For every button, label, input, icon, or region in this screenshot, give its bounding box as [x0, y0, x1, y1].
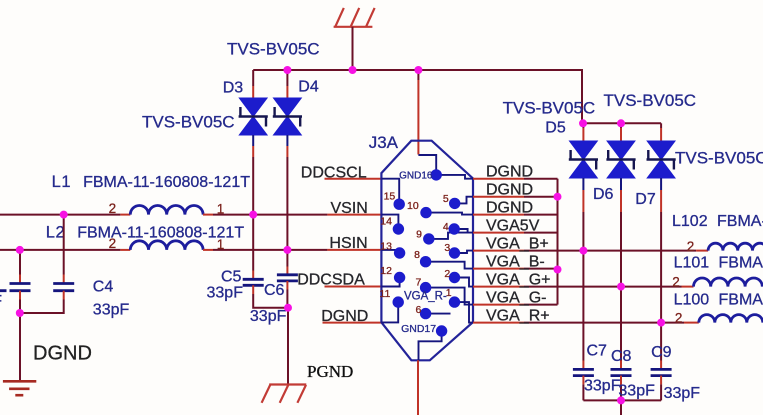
junction node 6 [60, 211, 68, 219]
wire D5 riser [582, 123, 584, 128]
hook p1 [455, 302, 474, 323]
wire C5 bottom [253, 294, 288, 308]
pin C5 top [252, 271, 254, 280]
junction node 10 [16, 309, 24, 317]
svg-text:VGA_G+: VGA_G+ [486, 272, 550, 289]
lead D5 bottom [582, 178, 584, 190]
capacitor C4 [53, 284, 74, 291]
pin circle 5 [449, 198, 460, 209]
svg-text:FBMA-11-160808-121T: FBMA-11-160808-121T [719, 255, 763, 272]
svg-text:TVS-BV05C: TVS-BV05C [142, 113, 235, 132]
hook p6 stub VGA_R- [426, 313, 451, 315]
junction node 5 [617, 119, 625, 127]
diode D6 TVS-BV05C [606, 141, 635, 178]
pin J3A right row DGND [473, 178, 524, 180]
pin circle 11 [393, 296, 404, 307]
svg-text:DDCSDA: DDCSDA [297, 272, 365, 289]
inductor L102 coil [708, 243, 763, 250]
connector J3A outline [381, 141, 473, 361]
pin GND17 exit lower [417, 360, 419, 415]
capacitor C3 (edge) [10, 284, 31, 291]
svg-text:DGND: DGND [486, 200, 533, 217]
svg-text:VGA5V: VGA5V [486, 218, 540, 235]
svg-text:2: 2 [675, 310, 683, 325]
pin J3A right row VGA_G- [473, 304, 524, 306]
junction node 9 [283, 246, 291, 254]
wire D4 riser [286, 70, 288, 86]
svg-text:9: 9 [416, 229, 422, 241]
wire DGND row [524, 196, 558, 198]
svg-text:1: 1 [217, 237, 225, 252]
hook p5 [455, 197, 473, 204]
svg-text:GND16: GND16 [399, 170, 433, 181]
svg-text:TVS-BV05C: TVS-BV05C [675, 149, 763, 168]
junction node 2 [349, 66, 357, 74]
hook GND16 to DGND row [436, 175, 473, 179]
wire D3 riser [252, 70, 254, 86]
pin circle 10 [420, 207, 431, 218]
pin connector GND16 entry [417, 80, 419, 155]
wire D3 node to C5 [252, 215, 254, 271]
pin L1 pin2 [120, 214, 130, 216]
wire VSIN row mid [213, 214, 327, 216]
svg-text:GND17: GND17 [401, 323, 436, 335]
pin C6 bottom [286, 281, 288, 290]
junction node 8 [16, 246, 24, 254]
wire D7 down [660, 212, 662, 323]
svg-text:L101: L101 [674, 255, 710, 272]
wire bottom exit [620, 400, 622, 415]
pin C7 top [582, 361, 584, 370]
svg-text:DGND: DGND [486, 182, 533, 199]
pin circle GND16 [431, 169, 442, 180]
svg-text:6: 6 [416, 304, 422, 316]
wire C8 lower [620, 384, 622, 400]
hook p7 [426, 288, 473, 305]
pin L101 pin2 [682, 286, 694, 288]
inductor L100 coil [699, 315, 763, 323]
hook p15 [381, 179, 399, 205]
svg-text:C7: C7 [587, 343, 608, 360]
pin J3A right row VGA_B- [473, 268, 524, 270]
pin J3A p14 stub [327, 214, 381, 216]
junction node 12 [554, 193, 562, 201]
pin C9 top [660, 361, 662, 370]
svg-text:DGND: DGND [33, 343, 92, 365]
svg-text:11: 11 [379, 288, 390, 300]
svg-text:VGA_G-: VGA_G- [486, 290, 546, 307]
wire C8 upper [620, 287, 622, 361]
pin circle 7 [420, 282, 431, 293]
svg-text:C4: C4 [93, 278, 114, 295]
wire chassis to top bus [352, 27, 354, 70]
hook GND17 exit [419, 331, 442, 360]
hook GND16 entry [418, 155, 436, 175]
wire C3 bottom to ground [19, 300, 21, 381]
wire C6 bottom [286, 290, 288, 308]
wire HSIN row mid [213, 249, 327, 251]
svg-text:DGND: DGND [486, 164, 533, 181]
pin J3A right row VGA_R+ [473, 322, 524, 324]
svg-text:VGA_R+: VGA_R+ [486, 308, 550, 325]
junction node 16 [657, 319, 665, 327]
pin L100 pin2 [684, 322, 699, 324]
wire D6 down [620, 212, 622, 287]
hook p9 [429, 233, 473, 239]
pin D5 bottom [582, 190, 584, 212]
svg-text:1: 1 [217, 201, 225, 216]
lead D3 bottom [252, 135, 254, 146]
wire VSIN to C4 [63, 215, 65, 275]
junction node 7 [249, 211, 257, 219]
pin C8 bottom [620, 376, 622, 385]
svg-text:14: 14 [380, 216, 392, 228]
svg-text:D5: D5 [545, 120, 566, 137]
svg-text:33pF: 33pF [618, 383, 655, 400]
svg-text:2: 2 [109, 236, 117, 251]
hook p3 [455, 251, 474, 253]
capacitor C7 [573, 369, 594, 375]
inductor L101 coil [694, 278, 763, 287]
diode D3 TVS-BV05C [239, 98, 268, 135]
svg-text:2: 2 [109, 201, 117, 216]
diode D7 TVS-BV05C [647, 141, 676, 178]
svg-text:TVS-BV05C: TVS-BV05C [227, 40, 320, 59]
svg-text:2: 2 [672, 275, 680, 290]
wire C9 lower [660, 384, 662, 400]
pin J3A p11 stub DGND [323, 322, 382, 324]
wire VGA_G- row [524, 304, 558, 306]
wire C7 lower [582, 384, 584, 400]
pin C5 bottom [252, 285, 254, 294]
wire DGND row [524, 178, 558, 180]
pin J3A p12 stub DDCSDA [325, 286, 382, 288]
svg-text:HSIN: HSIN [329, 235, 367, 252]
svg-text:D3: D3 [223, 80, 244, 97]
pin D7 top [660, 128, 662, 141]
svg-text:VGA_B-: VGA_B- [486, 254, 545, 271]
hook p2 [455, 278, 474, 287]
svg-text:10: 10 [407, 200, 419, 212]
wire D7 riser [660, 123, 662, 128]
svg-text:33pF: 33pF [584, 378, 621, 395]
hook p11 [381, 302, 398, 322]
wire VGA_B+ row [524, 250, 696, 252]
pin C9 bottom [660, 376, 662, 385]
pin J3A right row DGND [473, 214, 524, 216]
wire to PGND [287, 308, 289, 385]
svg-text:PGND: PGND [307, 362, 353, 381]
pin C6 top [286, 267, 288, 275]
svg-text:12: 12 [380, 265, 392, 277]
pin C4 bottom [63, 291, 65, 300]
hook p12 [381, 278, 399, 287]
svg-text:L102: L102 [672, 213, 708, 230]
pin circle 8 [420, 256, 431, 267]
lead D4 bottom [286, 135, 288, 146]
svg-text:15: 15 [384, 191, 396, 203]
junction node 17 [617, 396, 625, 404]
junction node 11 [284, 304, 292, 312]
wire C7 upper [582, 251, 584, 361]
pin C4 top [63, 275, 65, 284]
diode D5 TVS-BV05C [569, 141, 598, 178]
pin circle 4 [449, 223, 460, 234]
pin D7 bottom [660, 190, 662, 212]
junction node 13 [554, 266, 562, 274]
hook p14 [381, 215, 398, 229]
svg-text:J3A: J3A [369, 133, 399, 152]
wire connector GND16 entry upper [417, 70, 419, 80]
pin circle 6 [420, 308, 431, 319]
pin J3A p13 stub [327, 249, 381, 251]
ground DGND symbol [3, 381, 36, 395]
wire D5 down [582, 212, 584, 251]
svg-text:13: 13 [380, 241, 392, 253]
wire VGA5V row [524, 232, 558, 234]
svg-text:L2: L2 [46, 223, 66, 241]
pin D4 bottom [286, 146, 288, 157]
wire HSIN row left [0, 249, 120, 251]
svg-text:1: 1 [446, 287, 452, 299]
inductor L1 coil [130, 206, 203, 215]
pin D4 top [286, 86, 288, 99]
pin circle 12 [394, 272, 405, 283]
hook p8 [426, 262, 473, 269]
pin C8 top [620, 361, 622, 370]
pin J3A right row DGND [473, 196, 524, 198]
capacitor C5 [243, 279, 264, 285]
svg-text:L1: L1 [52, 173, 72, 191]
svg-text:2: 2 [687, 239, 695, 254]
capacitor C8 [611, 369, 632, 375]
svg-text:4: 4 [443, 221, 449, 233]
pin circle GND17 [436, 325, 447, 336]
svg-text:D7: D7 [635, 191, 656, 208]
junction node 4 [579, 119, 587, 127]
wire DGND row [524, 214, 558, 216]
wire DGND vertical bus [557, 179, 559, 305]
junction node 14 [579, 247, 587, 255]
lead D6 bottom [620, 178, 622, 190]
wire D4 node to C6 [286, 250, 288, 267]
pin J3A right row VGA_G+ [473, 286, 524, 288]
pin circle 3 [449, 247, 460, 258]
pin C3 bottom [19, 291, 21, 300]
svg-text:33pF: 33pF [664, 385, 701, 402]
diode D4 TVS-BV05C [273, 98, 302, 135]
svg-text:33pF: 33pF [93, 301, 130, 318]
pin circle 14 [393, 223, 404, 234]
wire C9 upper [660, 323, 662, 361]
svg-text:8: 8 [414, 249, 420, 261]
svg-text:33pF: 33pF [250, 308, 287, 325]
svg-text:D4: D4 [298, 79, 319, 96]
svg-text:L100: L100 [674, 292, 710, 309]
hook p4 [454, 229, 467, 233]
pin circle 15 [394, 199, 405, 210]
svg-text:FBMA-11-160808-121T: FBMA-11-160808-121T [83, 174, 250, 191]
wire VSIN row left [0, 214, 120, 216]
junction node 3 [414, 66, 422, 74]
wire VGA_G+ row [524, 286, 682, 288]
pin circle 2 [449, 272, 460, 283]
svg-text:DGND: DGND [321, 308, 368, 325]
svg-text:DDCSCL: DDCSCL [301, 164, 367, 181]
pin circle 13 [394, 247, 405, 258]
wire VGA_B- row [524, 268, 558, 270]
chassis ground symbol PGND (top) [334, 8, 375, 27]
svg-text:FBMA-11-160808-121T: FBMA-11-160808-121T [717, 213, 763, 230]
svg-text:33pF: 33pF [0, 293, 2, 310]
wire D6 riser [620, 123, 622, 128]
pin J3A right row VGA5V [473, 232, 524, 234]
svg-text:C8: C8 [611, 348, 632, 365]
pin C7 bottom [582, 376, 584, 385]
svg-text:VGA_B+: VGA_B+ [486, 236, 549, 253]
capacitor C6 [277, 275, 298, 281]
pin D3 top [252, 86, 254, 99]
pin D6 bottom [620, 190, 622, 212]
pin C3 top [19, 275, 21, 284]
svg-text:33pF: 33pF [207, 285, 244, 302]
wire D3 to VSIN [252, 157, 254, 215]
svg-text:C6: C6 [264, 282, 285, 299]
svg-text:5: 5 [443, 193, 449, 205]
pin circle 1 [449, 296, 460, 307]
chassis ground symbol PGND (bottom) [262, 385, 307, 403]
hook p13 [381, 250, 399, 253]
junction node 15 [617, 283, 625, 291]
svg-text:VGA_R-: VGA_R- [404, 291, 447, 303]
pin D5 top [582, 128, 584, 141]
svg-text:C5: C5 [221, 268, 242, 285]
hook p10 [426, 213, 473, 215]
wire top bus [253, 70, 661, 123]
pin L2 pin1 [203, 249, 213, 251]
svg-text:TVS-BV05C: TVS-BV05C [604, 91, 697, 110]
svg-text:D6: D6 [593, 186, 614, 203]
capacitor C9 [651, 369, 672, 375]
pin L102 pin2 [696, 250, 708, 252]
svg-text:TVS-BV05C: TVS-BV05C [503, 99, 596, 118]
pin J3A p15 stub DDCSCL [325, 178, 382, 180]
svg-text:3: 3 [444, 242, 450, 254]
svg-text:2: 2 [444, 268, 450, 280]
svg-text:C9: C9 [651, 344, 672, 361]
pin L2 pin2 [120, 249, 130, 251]
svg-text:7: 7 [416, 277, 422, 289]
capacitor C2 plate fragment at edge [0, 289, 7, 292]
wire HSIN to C3 [19, 250, 21, 275]
svg-text:VSIN: VSIN [331, 200, 368, 217]
lead D7 bottom [660, 178, 662, 190]
pin circle 9 [423, 233, 434, 244]
pin L1 pin1 [203, 214, 213, 216]
inductor L2 coil [130, 241, 203, 250]
wire C4 bottom [20, 300, 64, 314]
pin J3A right row VGA_B+ [473, 250, 524, 252]
wire VGA_R+ row [524, 322, 684, 324]
wire D4 to HSIN [286, 157, 288, 250]
wire bottom bus [583, 399, 661, 401]
pin D3 bottom [252, 146, 254, 157]
junction node 1 [283, 66, 291, 74]
svg-text:FBMA-11-160808-121T: FBMA-11-160808-121T [719, 292, 763, 309]
pin D6 top [620, 128, 622, 141]
